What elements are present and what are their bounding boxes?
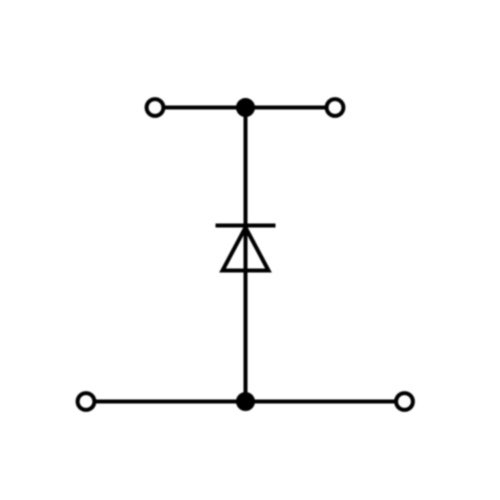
node junction top (238, 100, 253, 115)
wire bottom rail (86, 400, 405, 404)
terminal top-left (147, 99, 164, 116)
diode D1 cathode bar (216, 224, 276, 228)
diode D1 anode triangle (223, 228, 269, 271)
wire top rail (155, 106, 335, 110)
wire vertical net through diode (244, 108, 248, 402)
terminal bottom-right (396, 393, 413, 410)
node junction bottom (238, 394, 253, 409)
terminal top-right (327, 99, 344, 116)
terminal bottom-left (78, 393, 95, 410)
